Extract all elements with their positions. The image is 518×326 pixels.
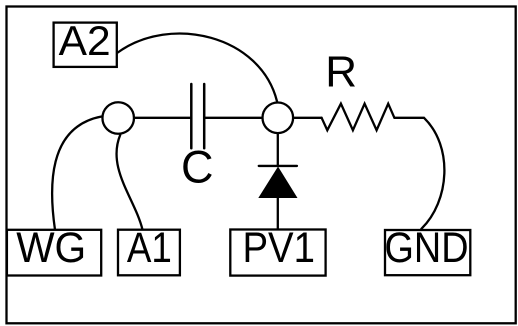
svg-text:WG: WG [16, 224, 86, 272]
svg-text:A2: A2 [59, 17, 111, 64]
terminal A2 [54, 17, 117, 67]
terminal A1 [118, 224, 180, 276]
svg-text:PV1: PV1 [242, 224, 315, 272]
node N2 (right junction) [263, 103, 294, 134]
svg-text:GND: GND [385, 224, 469, 272]
wire diode PV1 to terminal PV1 [277, 198, 279, 230]
svg-text:R: R [325, 47, 357, 96]
wire node N1 to capacitor C left plate [135, 117, 190, 119]
terminal WG [7, 224, 101, 276]
capacitor C [191, 84, 204, 148]
terminal GND [385, 224, 471, 275]
wire resistor R to terminal GND [394, 118, 444, 229]
node N1 (left junction) [102, 102, 134, 134]
svg-text:C: C [181, 142, 214, 193]
wire node N1 to terminal A1 [117, 135, 143, 230]
wire terminal A2 to node N2 [118, 34, 277, 102]
terminal PV1 [230, 224, 325, 276]
svg-text:A1: A1 [127, 224, 172, 272]
wire node N2 to resistor R [294, 117, 321, 119]
wire capacitor C right plate to node N2 [205, 117, 261, 119]
resistor R [322, 104, 395, 131]
wire node N1 to terminal WG [52, 117, 101, 230]
diode PV1 (photovoltaic) [259, 166, 297, 198]
wire node N2 to diode PV1 anode bar [277, 134, 279, 166]
